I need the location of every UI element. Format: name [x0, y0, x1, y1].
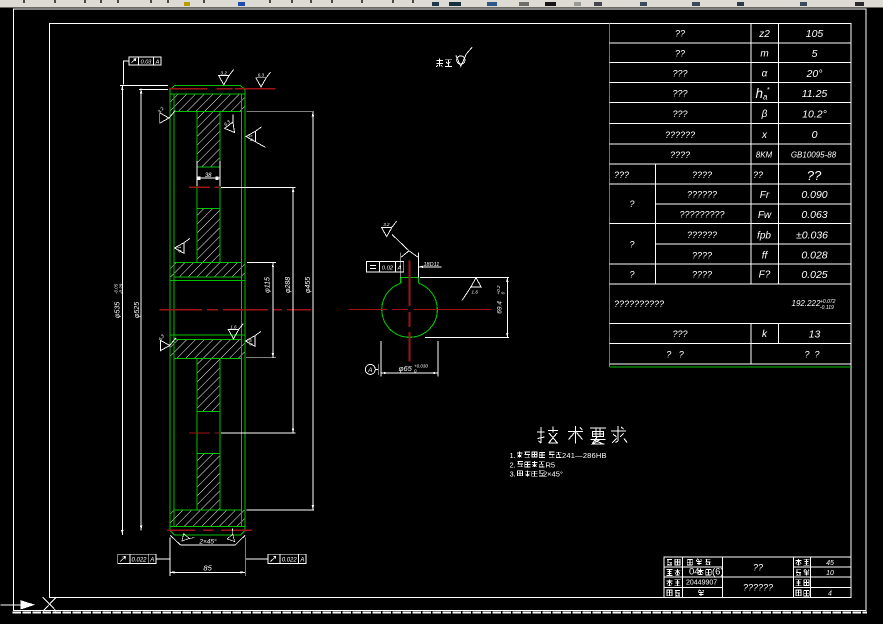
svg-text:241—286HB: 241—286HB	[562, 451, 607, 460]
table green bottom border	[610, 366, 851, 368]
rim inner edge	[174, 111, 242, 113]
svg-text:????: ????	[692, 170, 712, 180]
svg-text:F?: F?	[759, 270, 771, 281]
svg-text:0.02: 0.02	[382, 265, 394, 271]
char 要	[590, 428, 606, 444]
svg-text:??????: ??????	[687, 230, 717, 240]
svg-text:A: A	[397, 265, 402, 271]
sf right of circle rotated	[462, 278, 481, 301]
svg-text:2×45°: 2×45°	[543, 470, 563, 479]
svg-text:???: ???	[672, 88, 687, 98]
hatch: hub band above bore	[171, 263, 245, 277]
svg-text:β: β	[761, 109, 768, 120]
web hole centerline bottom	[189, 432, 219, 434]
UCS icon X cross	[43, 598, 56, 611]
svg-text:x: x	[761, 130, 768, 141]
big chars 技术要求	[537, 426, 627, 444]
svg-text:10: 10	[826, 570, 834, 577]
svg-text:fpb: fpb	[757, 230, 771, 241]
svg-text:18D11: 18D11	[424, 262, 440, 268]
svg-text:04: 04	[689, 567, 700, 578]
dim line width 85	[170, 571, 245, 573]
svg-text:4: 4	[828, 590, 832, 597]
svg-text:φ455: φ455	[305, 277, 312, 293]
svg-text:20449907: 20449907	[686, 580, 717, 587]
dim arrows	[121, 86, 123, 91]
label: 比例	[796, 570, 801, 576]
rotated dim text pitch dia	[134, 302, 141, 318]
sf chamfer left	[179, 530, 194, 545]
svg-text:2×45°: 2×45°	[198, 537, 217, 545]
datum A circle	[365, 364, 375, 374]
label: 班级	[667, 570, 673, 576]
svg-text:k: k	[762, 329, 768, 340]
svg-text:Fr: Fr	[760, 190, 770, 201]
svg-text:3.2: 3.2	[221, 70, 228, 75]
dim line hub dia	[272, 263, 274, 358]
table green left border	[609, 24, 611, 368]
hatch: web upper segment 2	[197, 208, 220, 262]
svg-text:???: ???	[614, 170, 629, 180]
svg-text:z2: z2	[758, 29, 770, 40]
svg-text:???: ???	[672, 329, 687, 339]
note lines	[510, 451, 607, 479]
svg-text:ff: ff	[762, 251, 769, 262]
column lines	[750, 24, 752, 285]
surface finish symbols on gear	[157, 70, 271, 546]
svg-text:2.: 2.	[510, 460, 516, 469]
char 术	[568, 426, 583, 444]
svg-text:A: A	[149, 558, 154, 564]
svg-text:0.022: 0.022	[282, 558, 298, 564]
hatch: top rim band	[171, 94, 245, 112]
UCS icon arrow	[1, 601, 34, 609]
svg-text:Fw: Fw	[758, 210, 772, 221]
bore dia extension lines	[380, 341, 382, 376]
keyway outline	[401, 277, 419, 283]
svg-text:??????: ??????	[743, 583, 773, 593]
sf right lower apex-left	[246, 331, 262, 346]
char 求	[611, 426, 627, 443]
svg-text:20°: 20°	[806, 68, 823, 80]
svg-text:A: A	[367, 367, 372, 374]
svg-text:±0.036: ±0.036	[796, 230, 828, 242]
svg-text:φ288: φ288	[285, 277, 292, 293]
extension line tip dia left	[120, 85, 168, 87]
sf 6.3 top right	[256, 72, 271, 87]
svg-text:?: ?	[629, 199, 634, 209]
sf left face apex-right	[160, 110, 176, 123]
svg-text:A: A	[155, 59, 160, 65]
svg-text:??????: ??????	[665, 130, 695, 140]
svg-text:5: 5	[812, 48, 818, 60]
web sides	[196, 112, 198, 263]
svg-text:1.6: 1.6	[230, 324, 237, 329]
title block	[664, 557, 851, 598]
svg-text:??: ??	[807, 168, 822, 183]
web lightening hole edges	[197, 166, 220, 168]
svg-text:85: 85	[203, 563, 212, 572]
chamfer callout lines	[170, 535, 180, 544]
svg-text:α: α	[762, 69, 768, 80]
svg-text:????: ????	[692, 270, 712, 280]
bore dia dim line	[381, 372, 438, 374]
bore edges	[170, 279, 245, 281]
keyway width extension lines	[400, 253, 402, 278]
svg-text:R5: R5	[546, 460, 556, 469]
label: 审核	[667, 590, 672, 596]
svg-text:0.063: 0.063	[801, 209, 827, 221]
hub band edges	[174, 262, 242, 264]
svg-text:? ?: ? ?	[804, 349, 819, 359]
sf left lower apex-right	[160, 338, 176, 351]
gear outline (tip cylinder) with chamfered corners	[170, 86, 245, 535]
svg-text:? ?: ? ?	[666, 349, 684, 359]
svg-text:0: 0	[812, 129, 818, 141]
leader to sf symbol	[392, 235, 409, 251]
svg-text:m: m	[760, 49, 768, 60]
fcf symmetry frame	[367, 262, 404, 273]
char 技	[537, 427, 558, 444]
sheet limits dashed line	[14, 612, 867, 614]
dim line pitch diameter	[140, 89, 142, 531]
extension hole centers right	[221, 186, 296, 188]
label: 学号	[667, 579, 673, 586]
svg-text:105: 105	[806, 28, 824, 40]
centerline horizontal	[349, 309, 492, 311]
hatch: web lower segment 1	[197, 359, 220, 412]
dim line tip diameter	[121, 86, 123, 535]
svg-text:h: h	[756, 86, 764, 101]
toolbar strip	[0, 0, 883, 8]
svg-text:????: ????	[670, 150, 690, 160]
svg-text:1.: 1.	[510, 451, 516, 460]
svg-text:3.2: 3.2	[383, 222, 390, 227]
svg-text:3.: 3.	[510, 470, 516, 479]
svg-text:0.025: 0.025	[801, 269, 827, 281]
svg-text:0.028: 0.028	[801, 250, 827, 262]
hatch: web lower segment 2	[197, 453, 220, 510]
svg-text:0: 0	[501, 291, 506, 294]
extension rim inner top right	[247, 111, 314, 113]
row lines	[610, 42, 851, 44]
dim line rim inner dia	[312, 112, 314, 510]
svg-text:6.3: 6.3	[223, 119, 231, 127]
hatch: bottom rim band	[171, 510, 245, 527]
extension hub right	[247, 262, 276, 264]
parameter table text	[614, 28, 837, 359]
keyway width dim line to text	[418, 266, 441, 268]
name: 郭晓军	[687, 560, 692, 565]
datum A attach	[375, 368, 378, 370]
svg-text:??: ??	[675, 49, 685, 59]
svg-text:??????????: ??????????	[614, 299, 664, 309]
svg-text:11.25: 11.25	[802, 88, 828, 100]
extensions for width 85	[169, 538, 171, 577]
svg-text:6.3: 6.3	[258, 73, 265, 78]
sf web 6.3 tilted	[221, 114, 242, 135]
title block text	[667, 559, 834, 598]
runout datum frame bottom-right	[246, 554, 306, 563]
svg-text:GB10095-88: GB10095-88	[791, 151, 837, 160]
label: 图号	[796, 590, 801, 596]
svg-text:-0.29: -0.29	[119, 283, 124, 294]
dim line hole circle dia	[292, 187, 294, 433]
svg-text:10.2°: 10.2°	[802, 108, 827, 120]
svg-text:A: A	[299, 558, 304, 564]
svg-text:0.03: 0.03	[141, 59, 153, 65]
parameter table	[610, 24, 851, 368]
svg-text:192.222: 192.222	[792, 299, 821, 308]
svg-text:???: ???	[672, 109, 687, 119]
svg-text:???: ???	[672, 68, 687, 78]
extension line pitch dia left	[139, 88, 168, 90]
label: 重量	[796, 580, 802, 586]
svg-text:?????????: ?????????	[679, 210, 724, 220]
root circle lines	[170, 93, 245, 95]
其余 all-others roughness block	[436, 47, 472, 67]
svg-text:φ525: φ525	[134, 302, 141, 318]
svg-text:φ65: φ65	[399, 364, 413, 373]
extension rim inner bottom right	[247, 509, 314, 511]
svg-text:13: 13	[809, 328, 821, 340]
svg-text:??: ??	[675, 29, 685, 39]
bore circle (green) with keyway gap	[382, 283, 438, 337]
svg-text:??: ??	[753, 563, 763, 573]
sf web right apex-left w tail	[246, 127, 262, 142]
svg-text:?: ?	[629, 270, 634, 280]
name2: 徐	[698, 590, 704, 596]
svg-text:8KM: 8KM	[756, 151, 773, 160]
svg-text:?: ?	[629, 240, 634, 250]
runout datum frame top-left	[123, 57, 161, 85]
sf band E top	[228, 324, 243, 339]
hatch: web upper segment 1	[197, 112, 220, 167]
label: 材料	[796, 559, 802, 566]
svg-text:0.090: 0.090	[801, 189, 827, 201]
pitch line bottom (red)	[167, 529, 252, 531]
keyway width dim arrows (outside, peak)	[401, 251, 419, 258]
keyway depth dim line	[506, 277, 508, 337]
centerline vertical	[408, 260, 410, 361]
svg-text:69.4: 69.4	[497, 301, 504, 314]
svg-text:3.2: 3.2	[157, 106, 165, 114]
svg-text:38: 38	[205, 173, 212, 179]
svg-text:0.022: 0.022	[131, 558, 147, 564]
svg-text:φ115: φ115	[265, 277, 272, 293]
keyway depth extension lines	[420, 276, 509, 278]
keyway depth rotated text	[496, 285, 506, 314]
svg-text:????: ????	[692, 250, 712, 260]
runout datum frame bottom-left	[118, 554, 170, 563]
pitch line top (red)	[169, 88, 276, 90]
main centerline (red)	[160, 309, 311, 311]
rotated dim text tip dia	[114, 283, 124, 318]
svg-text:*: *	[767, 87, 770, 94]
svg-text:(6): (6)	[712, 567, 724, 578]
svg-text:-0.119: -0.119	[820, 305, 834, 311]
rotated dim text hub dia	[265, 277, 272, 293]
class: 机本 chars	[698, 569, 704, 576]
hatch: hub band below bore	[171, 340, 245, 359]
sf hub left apex-left	[175, 238, 191, 253]
sf 3.2 keyway	[382, 221, 397, 236]
svg-text:φ535: φ535	[115, 302, 122, 318]
web hole centerline top	[189, 186, 219, 188]
svg-text:45: 45	[826, 560, 834, 567]
rotated dim text hole circle dia	[285, 277, 292, 293]
svg-text:??: ??	[753, 170, 763, 180]
label: 绘图	[667, 560, 672, 566]
svg-text:1.6: 1.6	[472, 290, 479, 295]
sf 3.2 top left	[219, 70, 234, 85]
svg-text:??????: ??????	[687, 190, 717, 200]
dim 38 web hole	[197, 177, 220, 179]
rotated dim text rim inner dia	[305, 277, 312, 293]
sf chamfer right	[224, 529, 239, 544]
svg-text:6.3: 6.3	[158, 333, 166, 341]
